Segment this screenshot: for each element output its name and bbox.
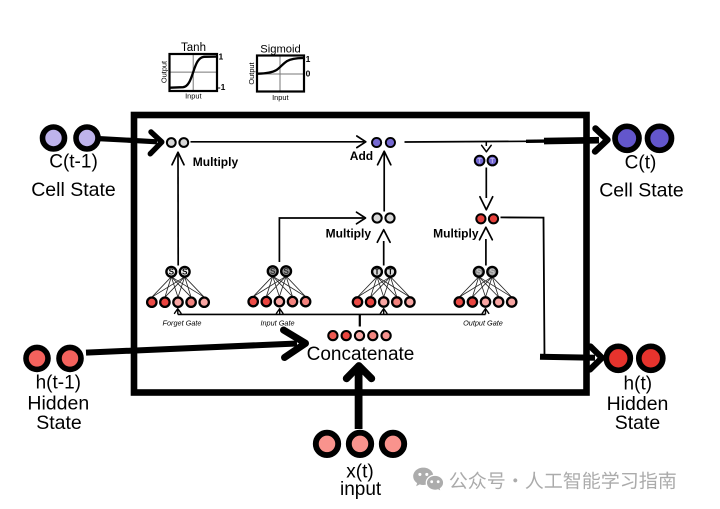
svg-text:S: S xyxy=(489,268,495,277)
watermark text 公众号·人工智能学习指南 xyxy=(450,472,676,490)
add node xyxy=(372,138,395,147)
multiply node 2 (input) xyxy=(373,213,395,222)
svg-text:Output: Output xyxy=(247,62,256,84)
svg-text:S: S xyxy=(283,267,289,276)
svg-text:1: 1 xyxy=(219,52,224,62)
tanh legend chart xyxy=(160,42,226,101)
svg-text:0: 0 xyxy=(306,68,311,78)
arrow box to h(t) xyxy=(540,347,602,370)
forget gate fan xyxy=(147,267,209,307)
svg-text:Forget Gate: Forget Gate xyxy=(163,319,202,328)
cell state output circles C(t) xyxy=(615,126,672,150)
candidate gate fan xyxy=(353,267,415,307)
wire input gate elbow to multiply2 xyxy=(279,212,365,262)
LSTM cell box xyxy=(134,115,587,393)
tanh activation pair (indigo T circles) xyxy=(475,156,497,166)
svg-text:S: S xyxy=(476,268,482,277)
arrow x(t) up to concatenate xyxy=(347,366,372,429)
svg-text:Concatenate: Concatenate xyxy=(307,344,415,365)
arrow output gate up to multiply3 xyxy=(480,227,493,265)
svg-text:-1: -1 xyxy=(218,82,226,92)
arrow C(t-1) into box xyxy=(99,132,162,154)
svg-text:Input: Input xyxy=(185,91,201,100)
arrow box to C(t) xyxy=(544,129,608,152)
svg-text:Multiply: Multiply xyxy=(326,226,372,240)
cell state input circles C(t-1) xyxy=(43,127,99,149)
small arrow from wire down to tanh pair xyxy=(482,142,492,152)
svg-text:1: 1 xyxy=(306,54,311,64)
hidden state output circles h(t) xyxy=(606,346,663,370)
svg-text:State: State xyxy=(615,412,661,434)
multiply node 1 (forget) xyxy=(167,138,188,147)
multiply node 3 (output, red) xyxy=(476,214,498,223)
svg-text:S: S xyxy=(182,268,188,277)
wire multiply1 to add xyxy=(191,136,366,148)
svg-text:S: S xyxy=(169,268,175,277)
input circles x(t) xyxy=(316,433,404,455)
svg-text:Output Gate: Output Gate xyxy=(463,318,503,327)
svg-text:Tanh: Tanh xyxy=(181,42,206,54)
svg-text:T: T xyxy=(490,158,495,165)
wechat watermark icon xyxy=(413,468,444,492)
arrow tanh pair down to multiply3 xyxy=(480,168,493,210)
arrow forget gate up to multiply1 xyxy=(172,152,184,265)
bus wire from concatenate to gates xyxy=(175,309,489,327)
input gate fan xyxy=(249,266,311,306)
wire multiply3 to hidden state output xyxy=(501,217,545,356)
svg-text:Multiply: Multiply xyxy=(193,155,239,169)
sigmoid legend chart xyxy=(247,43,311,102)
svg-text:h(t): h(t) xyxy=(624,373,653,394)
svg-text:Sigmoid: Sigmoid xyxy=(260,43,300,55)
svg-text:T: T xyxy=(374,268,379,277)
wire add to cell state output xyxy=(405,140,529,143)
svg-text:S: S xyxy=(270,267,276,276)
svg-text:T: T xyxy=(477,158,482,165)
arrow candidate gate up to multiply2 xyxy=(377,230,390,266)
svg-text:Multiply: Multiply xyxy=(433,226,479,240)
svg-text:h(t-1): h(t-1) xyxy=(36,372,81,393)
output gate fan xyxy=(455,267,517,307)
svg-text:State: State xyxy=(36,412,82,434)
svg-text:Cell State: Cell State xyxy=(599,179,684,201)
svg-text:Input: Input xyxy=(272,93,288,102)
concatenate node circles xyxy=(328,331,390,340)
svg-text:T: T xyxy=(388,268,393,277)
svg-text:Input Gate: Input Gate xyxy=(260,318,294,327)
hidden state input circles h(t-1) xyxy=(26,347,81,369)
svg-text:input: input xyxy=(340,479,382,500)
svg-text:Add: Add xyxy=(350,149,373,163)
arrow h(t-1) to concatenate xyxy=(86,330,306,358)
svg-text:C(t-1): C(t-1) xyxy=(49,152,98,173)
svg-text:Output: Output xyxy=(160,61,169,83)
svg-text:Cell State: Cell State xyxy=(31,179,116,201)
svg-text:C(t): C(t) xyxy=(625,153,657,174)
arrow multiply2 up to add xyxy=(378,151,391,211)
